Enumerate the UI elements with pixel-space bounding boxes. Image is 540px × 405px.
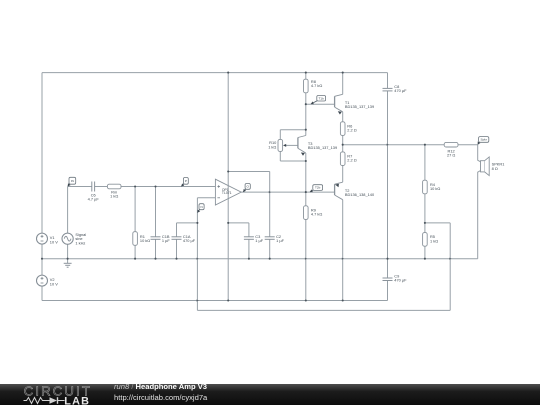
wire V1 bottom to ground rail xyxy=(41,244,43,259)
wire R8 column xyxy=(305,73,307,105)
resistor R12 xyxy=(444,142,458,147)
svg-text:LAB: LAB xyxy=(64,395,90,405)
label R1 10 kOhm xyxy=(140,234,150,243)
wire T1 collector to rail xyxy=(342,73,344,95)
wire R9 column xyxy=(305,192,307,300)
wire R7 to T2 emitter xyxy=(342,166,344,183)
svg-text:V110 V: V110 V xyxy=(50,235,58,244)
wire bias chain lower xyxy=(305,161,307,192)
wire C1B vertical xyxy=(155,187,157,259)
op-amp OP1 TL071 xyxy=(215,179,241,205)
resistor R6 xyxy=(340,122,345,136)
wire C1A jog to node N xyxy=(177,222,198,224)
wire C3 vertical xyxy=(248,223,250,259)
label R9 4.7 kOhm xyxy=(311,207,322,216)
resistor R8 xyxy=(304,79,309,93)
resistor R1 xyxy=(133,232,138,246)
label C6 4.7 uF xyxy=(88,192,100,201)
signal source SIG1 xyxy=(62,233,73,244)
wire T1 base xyxy=(306,103,335,105)
transistor T1 xyxy=(335,94,343,114)
svg-text:V210 V: V210 V xyxy=(50,277,58,286)
svg-text:R101 kΩ: R101 kΩ xyxy=(268,140,277,149)
label Signal sine 1 kHz xyxy=(75,232,86,245)
svg-text:R110 kΩ: R110 kΩ xyxy=(140,234,150,243)
wire R5 column xyxy=(424,223,426,259)
wire bias chain upper xyxy=(305,104,307,130)
label R8 4.7 kOhm xyxy=(311,79,322,88)
wire left rail V1 to top xyxy=(41,73,43,234)
wire pot top stub xyxy=(279,130,281,140)
wire op-amp +V supply xyxy=(227,73,229,301)
banner title text xyxy=(114,382,207,403)
svg-text:T3BD135_137_139: T3BD135_137_139 xyxy=(308,141,337,150)
svg-text:R51 kΩ: R51 kΩ xyxy=(430,234,438,243)
transistor T3 xyxy=(298,136,306,156)
svg-text:Signalsine1 kHz: Signalsine1 kHz xyxy=(75,232,86,245)
label C1B 1 uF xyxy=(162,234,170,243)
node N vertical wire xyxy=(196,198,198,311)
wire input corner to signal source top xyxy=(67,187,69,234)
wire +V decoupling jog xyxy=(228,171,270,173)
resistor R9 xyxy=(304,206,309,220)
svg-text:Spkr: Spkr xyxy=(481,138,487,142)
wire T3 collector stub xyxy=(305,130,307,136)
ground xyxy=(64,259,72,268)
wire T3 emitter stub xyxy=(305,153,307,161)
capacitor C8 xyxy=(383,88,393,91)
svg-text:C1B1 µF: C1B1 µF xyxy=(162,234,170,243)
svg-text:R72.2 Ω: R72.2 Ω xyxy=(347,154,356,163)
wire C1A vertical xyxy=(176,223,178,259)
wire T1 emitter to R6 xyxy=(342,112,344,122)
wire ground rail to V2 top xyxy=(41,259,43,275)
label C2 1 uF xyxy=(276,234,284,243)
wire output line xyxy=(343,144,445,146)
svg-text:Rm1 kΩ: Rm1 kΩ xyxy=(110,189,118,198)
svg-text:R62.2 Ω: R62.2 Ω xyxy=(347,123,356,132)
capacitor C6 xyxy=(92,182,95,192)
label R10 1 kOhm xyxy=(268,140,277,149)
wire Rm to op-amp + input xyxy=(121,186,215,188)
capacitor C1B xyxy=(151,237,161,240)
wire signal source bottom to ground xyxy=(67,244,69,259)
label T2 BD136_138_140 xyxy=(345,188,375,197)
svg-text:C21 µF: C21 µF xyxy=(276,234,284,243)
label V1 10 V xyxy=(50,235,58,244)
wire op-amp - input xyxy=(197,197,215,199)
svg-text:R410 kΩ: R410 kΩ xyxy=(430,182,440,191)
wire C8 bottom through ground xyxy=(387,91,389,278)
resistor R4 xyxy=(423,180,428,194)
resistor R5 xyxy=(423,233,428,247)
wire bias bottom jog xyxy=(280,160,306,162)
wire speaker top lead xyxy=(478,145,481,162)
label R5 1 kOhm xyxy=(430,234,438,243)
net flag O xyxy=(243,184,250,192)
svg-text:N: N xyxy=(200,205,202,209)
wire output node to R7 xyxy=(342,145,344,152)
net flag N xyxy=(198,204,205,213)
label R7 2.2 Ohm xyxy=(347,154,356,163)
label V2 10 V xyxy=(50,277,58,286)
svg-text:C9470 µF: C9470 µF xyxy=(394,274,407,283)
wire top +V rail xyxy=(42,72,388,74)
wire speaker bottom lead xyxy=(478,171,481,259)
net flag Spkr xyxy=(478,137,489,145)
wire ground rail xyxy=(42,258,478,260)
label SPKR1 8 Ohm xyxy=(492,162,505,171)
wire op-amp output xyxy=(241,191,306,193)
wire feedback bottom run xyxy=(197,309,450,311)
label R6 2.2 Ohm xyxy=(347,123,356,132)
svg-text:C31 µF: C31 µF xyxy=(255,234,263,243)
wire input node to C6 xyxy=(68,186,92,188)
svg-text:R1227 Ω: R1227 Ω xyxy=(447,149,455,158)
voltage source V1 xyxy=(37,233,48,244)
net flag P xyxy=(181,178,188,187)
resistor Rm xyxy=(107,184,121,189)
svg-text:T2BD136_138_140: T2BD136_138_140 xyxy=(345,188,375,197)
wire V2 bottom to -V rail xyxy=(41,286,43,300)
wire pot bottom stub xyxy=(279,151,281,161)
svg-text:IN: IN xyxy=(71,179,74,183)
wire R4 column xyxy=(424,145,426,223)
wire R6 to output node xyxy=(342,135,344,144)
wire C9 bottom to -V rail xyxy=(387,281,389,301)
label C1A 470 uF xyxy=(183,234,196,243)
svg-text:P: P xyxy=(185,179,187,183)
label OP1 TL071 xyxy=(222,188,232,195)
svg-text:SPKR18 Ω: SPKR18 Ω xyxy=(492,162,505,171)
wire R12 to speaker corner xyxy=(458,144,478,146)
svg-text:T1BD135_137_139: T1BD135_137_139 xyxy=(345,100,374,109)
capacitor C9 xyxy=(383,278,393,281)
speaker SPKR1 xyxy=(481,157,490,176)
resistor R7 xyxy=(340,152,345,166)
label C8 470 uF xyxy=(394,84,407,93)
svg-text:OP1TL071: OP1TL071 xyxy=(222,188,232,195)
wire C6 to Rm xyxy=(95,186,108,188)
wire R1 vertical xyxy=(134,187,136,259)
wire crossing hops xyxy=(197,144,452,302)
label R12 27 Ohm xyxy=(447,149,455,158)
capacitor C1A xyxy=(172,237,182,240)
wire -V rail xyxy=(42,300,388,302)
wire C2 vertical xyxy=(269,172,271,259)
capacitor C3 xyxy=(244,237,254,240)
wire feedback right vertical xyxy=(449,223,451,311)
svg-text:T1b: T1b xyxy=(319,96,325,100)
potentiometer R10 xyxy=(278,139,298,151)
label T3 BD135_137_139 xyxy=(308,141,337,150)
label C9 470 uF xyxy=(394,274,407,283)
svg-text:C64.7 µF: C64.7 µF xyxy=(88,192,100,201)
svg-text:C8470 µF: C8470 µF xyxy=(394,84,407,93)
wire bias top jog to pot xyxy=(280,129,306,131)
voltage source V2 xyxy=(37,275,48,286)
transistor T2 xyxy=(335,182,343,200)
net flag T1b xyxy=(311,96,326,105)
label Rm 1 kOhm xyxy=(110,189,118,198)
wire C8 column top xyxy=(387,73,389,89)
CircuitLab logo xyxy=(0,384,540,405)
svg-text:C1A470 µF: C1A470 µF xyxy=(183,234,196,243)
net flag IN xyxy=(68,177,76,186)
label C3 1 uF xyxy=(255,234,263,243)
wire R4/R5 tap jog xyxy=(425,222,450,224)
label R4 10 kOhm xyxy=(430,182,440,191)
wire T2 base xyxy=(306,191,335,193)
capacitor C2 xyxy=(265,237,275,240)
wire -V decoupling jog xyxy=(228,222,249,224)
svg-text:R94.7 kΩ: R94.7 kΩ xyxy=(311,207,322,216)
label T1 BD135_137_139 xyxy=(345,100,374,109)
net flag T2b xyxy=(310,185,323,192)
svg-text:R84.7 kΩ: R84.7 kΩ xyxy=(311,79,322,88)
svg-text:T2b: T2b xyxy=(315,186,321,190)
wire T2 collector to -V rail xyxy=(342,200,344,301)
